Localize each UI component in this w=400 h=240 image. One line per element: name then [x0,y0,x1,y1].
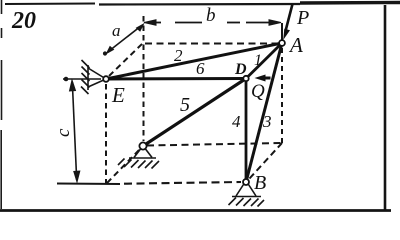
svg-text:E: E [111,83,125,107]
dashed vertical through top-back-left corner down to middle support [143,16,145,141]
dimension c arrow line [70,80,80,182]
bar 1 D to A [246,43,282,79]
dashed vertical edge E down to front-bottom-left corner [105,84,107,184]
node A [279,40,285,46]
frame bottom border [0,209,391,212]
dimension b arrow line [144,20,281,26]
frame right border [384,5,387,211]
dimension b extension line at A [281,23,283,40]
bar 2 E to A [106,43,282,79]
bar 5 middle support to D [143,79,246,147]
dimension c reference line top with dot [63,78,101,80]
svg-text:4: 4 [232,112,241,131]
svg-text:a: a [112,21,121,40]
force P arrow at A [283,4,292,40]
force Q arrow at D [255,75,271,82]
bar 3 A to B [246,43,282,182]
middle support (pin at back-bottom-left corner) [118,149,159,169]
dashed edge top-back-left corner to A [145,43,277,45]
dimension c reference line bottom [57,183,120,186]
support wall at E with hatching [81,60,106,94]
svg-text:1: 1 [254,52,262,69]
support at B with hatching [229,185,265,207]
frame top border [5,3,400,5]
svg-text:b: b [206,5,216,26]
bar 4 D to B [245,79,248,183]
svg-text:5: 5 [180,94,190,116]
dashed back-bottom edge from middle support to back-bottom-right corner [147,143,282,146]
dashed edge B to back-bottom-right corner [250,143,283,179]
bar 6 E to D [106,77,246,81]
svg-text:20: 20 [11,8,36,34]
dashed front-bottom edge from front-bottom-left corner to B [124,182,241,184]
svg-text:D: D [234,61,247,78]
node B [243,179,249,185]
svg-text:Q: Q [251,81,265,102]
dashed bottom diagonal front-bottom-left corner to middle support [107,149,140,183]
svg-text:6: 6 [196,59,205,78]
dimension a arrow line [103,24,144,56]
svg-text:B: B [254,172,266,194]
dashed vertical edge A down to back-bottom-right corner [281,48,283,143]
svg-text:c: c [53,128,74,137]
svg-text:P: P [296,7,309,29]
svg-text:A: A [288,33,303,57]
svg-text:2: 2 [174,46,183,65]
svg-text:3: 3 [262,112,272,131]
node at middle support [139,142,146,149]
node E [103,76,109,82]
dashed edge E to top-back-left corner [109,43,143,76]
node D [243,76,248,81]
frame left border [0,0,2,209]
